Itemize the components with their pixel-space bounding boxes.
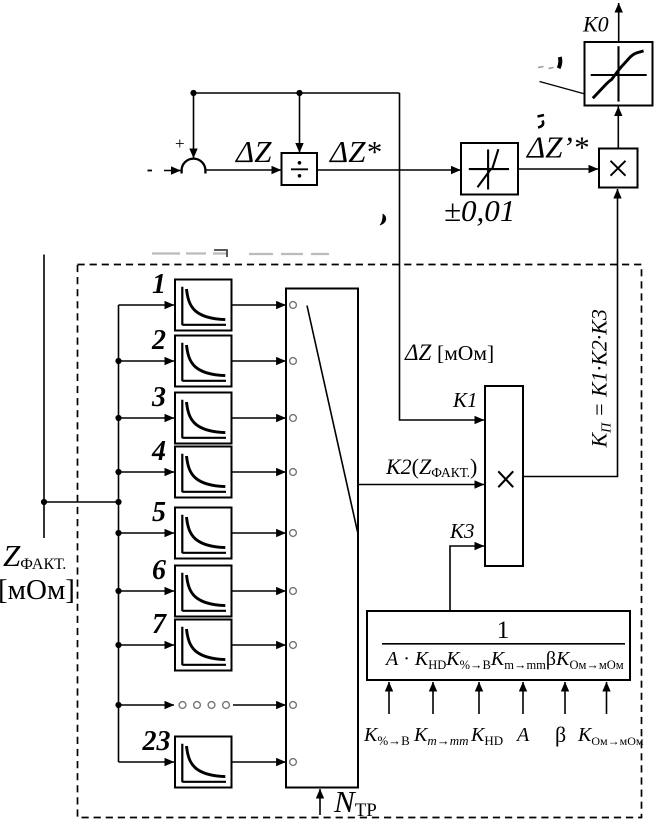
node: junction above divider: [296, 90, 302, 96]
dashed enclosure: [78, 265, 642, 818]
svg-text:ΔZ: ΔZ: [234, 134, 272, 169]
multiplier block (output): [599, 149, 638, 188]
wire: branch into block 3: [119, 417, 175, 419]
wire: branch into block 7: [119, 644, 175, 646]
wire: Zfact vertical line: [43, 255, 45, 539]
function block 23 (decay curve): [175, 737, 232, 788]
wire: block 6 to selector: [232, 590, 286, 592]
wire: branch into block 1: [119, 304, 175, 306]
selector contacts: [290, 302, 297, 309]
node: bus junction at Zfact: [115, 499, 121, 505]
svg-text:[мОм]: [мОм]: [0, 574, 75, 606]
node: junction above summer: [190, 90, 196, 96]
selector wiper: [307, 306, 358, 532]
wire: branch into block 5: [119, 532, 175, 534]
svg-text:β: β: [555, 722, 566, 747]
wire: K3 from coefficient block: [450, 546, 484, 611]
node: ellipsis dots: [179, 702, 186, 709]
svg-text:3: 3: [151, 382, 166, 413]
wire: block 5 to selector: [232, 532, 286, 534]
function block 2 (decay curve): [175, 336, 232, 387]
selector block: [286, 289, 358, 788]
svg-text:К1: К1: [452, 388, 477, 412]
wire: Zfact to bus: [44, 501, 119, 503]
divider U-div: [282, 153, 318, 185]
function block 4 (decay curve): [175, 447, 232, 498]
artifact: erased caption: [152, 252, 329, 255]
svg-text:ΔZ’*: ΔZ’*: [525, 130, 589, 165]
svg-text:1: 1: [497, 617, 510, 644]
svg-text:7: 7: [152, 609, 167, 640]
product block K1*K2*K3: [485, 386, 523, 566]
svg-text:ΔZ [мОм]: ΔZ [мОм]: [404, 340, 494, 365]
artifact: erased letter fragment: [559, 57, 561, 68]
wire: multiplier up to saturation block: [617, 107, 619, 149]
wire: deadzone to multiplier: [518, 168, 598, 170]
wire: drop into divider top: [299, 93, 301, 153]
wire: block 23 to selector: [232, 761, 286, 763]
dead-zone block: [461, 143, 518, 195]
wire: block 4 to selector: [232, 471, 286, 473]
wire: branch into block 6: [119, 590, 175, 592]
wire: selector output K2: [358, 484, 484, 486]
wire: branch into block 4: [119, 471, 175, 473]
wire: branch into block 2: [119, 360, 175, 362]
wire: block 2 to selector: [232, 360, 286, 362]
wire: input bus: [118, 305, 120, 762]
svg-text:A: A: [515, 724, 530, 746]
function block 3 (decay curve): [175, 393, 232, 444]
wire: drop into summing junction: [193, 93, 195, 158]
wire: block 1 to selector: [232, 304, 286, 306]
wire: branch into block 23: [119, 761, 175, 763]
svg-text:±0,01: ±0,01: [444, 193, 515, 228]
svg-text:23: 23: [142, 726, 171, 757]
artifact: clipped stub left of summer: [148, 170, 153, 172]
node: bus taps: [115, 358, 121, 364]
wire: ellipsis branch (left): [119, 704, 175, 706]
wire: summer to divider: [205, 169, 281, 171]
wire: saturation output arrow: [618, 3, 620, 42]
function block 6 (decay curve): [175, 566, 232, 617]
wire: left input arrow into summer: [164, 170, 181, 172]
wire: top feed line: [194, 92, 400, 94]
artifact: erased glyph: [538, 115, 545, 117]
wire: N_TR arrow: [319, 789, 321, 815]
function block 1 (decay curve): [175, 280, 232, 331]
svg-text:5: 5: [152, 497, 166, 528]
artifact: leader line: [540, 82, 586, 95]
svg-text:1: 1: [152, 269, 166, 300]
function block 7 (decay curve): [175, 620, 232, 671]
saturation block K0: [585, 42, 653, 106]
svg-text:ΔZ*: ΔZ*: [328, 134, 381, 169]
wire: divider to deadzone: [317, 169, 461, 171]
svg-text:4: 4: [151, 436, 166, 467]
wire: dZ branch down to K1 input: [400, 93, 485, 420]
function block 5 (decay curve): [175, 508, 232, 559]
artifact: stray comma: [380, 214, 387, 226]
summing junction: [182, 159, 206, 174]
wire: block 7 to selector: [232, 644, 286, 646]
svg-text:6: 6: [152, 555, 166, 586]
wire: coefficient input arrows: [388, 682, 390, 714]
svg-text:2: 2: [151, 325, 166, 356]
node: Zfact junction: [41, 499, 47, 505]
wire: block 3 to selector: [232, 417, 286, 419]
svg-text:+: +: [175, 134, 185, 153]
svg-text:К0: К0: [582, 12, 609, 37]
wire: product output to top multiplier: [523, 189, 618, 477]
svg-text:К3: К3: [449, 519, 474, 543]
wire: ellipsis to selector: [233, 704, 286, 706]
coefficient block 1/(A*Khd...): [367, 611, 630, 680]
